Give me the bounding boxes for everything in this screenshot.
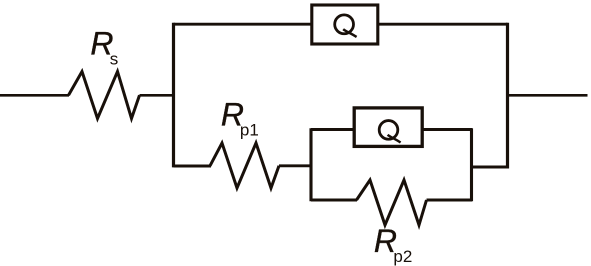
resistor Rp1 (210, 143, 279, 188)
wire node D to node B (472, 166, 508, 169)
label Q1 (335, 15, 357, 37)
wire bottom branch left (174, 165, 212, 168)
node C inner left junction vertical (309, 128, 312, 201)
CPE Q1 box (312, 5, 378, 44)
node B right junction vertical (506, 23, 509, 169)
svg-text:p2: p2 (393, 247, 412, 266)
wire top branch right (377, 23, 508, 26)
wire inner top branch right (421, 128, 472, 131)
wire inner bottom branch left (311, 199, 357, 202)
svg-text:s: s (110, 50, 119, 69)
wire inner top branch left (311, 128, 354, 131)
wire right lead (506, 94, 588, 97)
svg-text:p1: p1 (240, 120, 259, 139)
CPE Q2 box (354, 108, 422, 146)
node D inner right junction vertical (470, 128, 473, 201)
resistor Rs (69, 72, 140, 119)
resistor Rp2 (357, 180, 427, 225)
wire top branch left (174, 23, 313, 26)
wire left lead (0, 94, 69, 97)
node A left junction vertical (172, 23, 175, 168)
wire Rs to node A (140, 94, 176, 97)
wire Rp1 to node C (279, 164, 312, 167)
label Q2 (379, 121, 400, 143)
wire inner bottom branch right (427, 199, 473, 202)
